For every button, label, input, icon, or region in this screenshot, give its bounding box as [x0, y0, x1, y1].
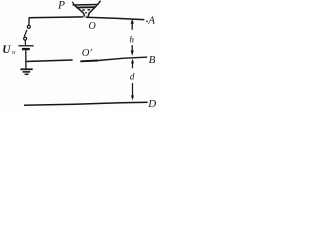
- battery U0 positive plate: [19, 45, 34, 47]
- dimension d upper arrow (points up to B): [131, 59, 134, 69]
- plate A (right segment, from hole O to right end): [86, 17, 145, 19]
- svg-text:o: o: [12, 49, 15, 56]
- svg-text:B: B: [149, 54, 156, 66]
- dimension h lower arrow (points down to B): [131, 45, 134, 56]
- plate B (right segment, from hole O' to right end): [80, 57, 147, 61]
- node A label: [146, 14, 155, 26]
- dimension h upper arrow (points up to A): [131, 19, 134, 30]
- svg-text:d: d: [130, 71, 135, 81]
- wire switch to battery: [24, 40, 26, 45]
- wire junction to plate B (left segment): [26, 60, 73, 62]
- battery U0 negative plate: [22, 48, 30, 50]
- funnel P left wall: [75, 5, 85, 16]
- dimension d lower arrow (points down to D): [131, 83, 134, 100]
- funnel liquid surface: [76, 6, 95, 8]
- svg-text:h: h: [129, 34, 134, 44]
- funnel P rim: [73, 3, 99, 6]
- plate D: [24, 102, 148, 105]
- svg-text:P: P: [57, 0, 65, 12]
- wire battery down to ground/junction: [25, 50, 27, 68]
- svg-text:A: A: [147, 14, 155, 26]
- funnel P left lip: [72, 2, 74, 5]
- plate B thick part under O': [80, 60, 98, 63]
- plate A (left segment, from corner to hole O): [29, 16, 84, 19]
- svg-text:D: D: [147, 98, 156, 110]
- switch S blade: [24, 30, 27, 37]
- ground: [20, 68, 32, 70]
- droplet dots in funnel: [82, 9, 90, 14]
- funnel P right lip: [98, 1, 101, 5]
- switch S bottom contact: [24, 37, 27, 40]
- svg-text:O: O: [89, 21, 96, 32]
- wire from switch up to plate A corner: [28, 18, 30, 25]
- svg-text:O′: O′: [82, 48, 93, 59]
- svg-text:U: U: [2, 44, 11, 56]
- funnel P right wall: [88, 5, 97, 16]
- label U0: [2, 44, 15, 56]
- switch S top contact: [27, 25, 30, 28]
